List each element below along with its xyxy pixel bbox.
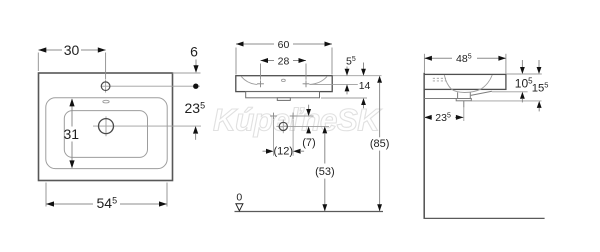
drain circle [99, 119, 114, 134]
dim 30 arrows [38, 47, 46, 52]
svg-text:(12): (12) [274, 145, 294, 157]
svg-text:0: 0 [236, 192, 242, 204]
wall line [423, 73, 425, 219]
top edge extension line right [173, 72, 201, 74]
trap tab front [277, 98, 290, 101]
outlet stub flange [456, 99, 471, 101]
overflow slot plan [103, 100, 109, 103]
faucet cross front left [260, 80, 262, 87]
faucet axis extension line right [111, 85, 201, 87]
dim 60 extension lines [235, 48, 237, 75]
dim 10.5 arrows [521, 60, 523, 67]
drain detail circle [279, 122, 287, 130]
slab underside extension line right [492, 91, 528, 93]
outlet bottom extension line right [472, 100, 542, 102]
dim 6 leader and arrow [195, 60, 197, 67]
svg-text:KúpeľneSK: KúpeľneSK [213, 102, 382, 138]
svg-text:6: 6 [190, 44, 198, 60]
underside slant line [471, 91, 492, 95]
dim 23.5 side arrows [424, 115, 432, 120]
mounting axis extension right [297, 115, 314, 117]
svg-text:14: 14 [359, 80, 371, 92]
dim 31 line [71, 101, 73, 127]
dim 48.5 extension lines [423, 54, 425, 73]
svg-text:(53): (53) [315, 166, 335, 178]
washbasin outer rect plan [39, 73, 173, 181]
datum triangle [236, 204, 243, 211]
basin rim rounded rect [46, 98, 167, 169]
faucet cross front right [305, 80, 307, 87]
svg-text:(85): (85) [370, 138, 390, 150]
datum line 0 [235, 211, 384, 213]
dim 28 extension lines [260, 64, 262, 80]
dim 54.5 arrows [46, 201, 54, 206]
svg-text:28: 28 [278, 55, 290, 67]
drain axis extension right front [290, 125, 329, 127]
drain pipe extension down [463, 107, 465, 121]
mounting cross left [273, 113, 275, 120]
basin inner rim curve front [241, 77, 257, 85]
drain crosshair [93, 125, 201, 127]
dim 60 arrows [236, 42, 244, 47]
washbasin body front [236, 76, 332, 92]
dim 48.5 line [424, 57, 452, 59]
plinth front [246, 92, 320, 98]
dim 28 arrows [261, 58, 269, 63]
dim 54.5 line [46, 203, 93, 205]
dim 5.5 arrows [346, 67, 348, 70]
slab side [424, 74, 506, 89]
bowl underside to wall line [424, 98, 457, 100]
drain detail crosshair [276, 125, 290, 127]
svg-text:(7): (7) [302, 137, 315, 149]
dim 15.5 arrows [538, 60, 540, 67]
dim 28 line [261, 60, 275, 62]
plinth bottom extension line right [321, 97, 367, 99]
slab top extension line right [506, 73, 541, 75]
faucet hole crosshair [105, 80, 107, 93]
dim 30 extension lines [37, 53, 39, 72]
dim 12 extension lines [273, 120, 275, 156]
dim 12 lines and arrows [263, 150, 267, 152]
dim 23.5 side line [424, 116, 432, 118]
faucet axis extension line right front [309, 83, 357, 85]
dim 54.5 extension lines [45, 183, 47, 207]
svg-text:30: 30 [64, 42, 80, 58]
dim 60 line [236, 43, 274, 45]
svg-text:31: 31 [64, 126, 80, 142]
faucet hole circle [101, 82, 110, 91]
dim 48.5 arrows [424, 56, 432, 61]
dim 6 dot on faucet axis [193, 84, 198, 89]
svg-text:60: 60 [278, 39, 290, 51]
bowl curve side [444, 75, 492, 93]
dim 85 line [377, 76, 382, 83]
dim 7 arrows [308, 105, 310, 110]
mounting cross right [292, 113, 294, 120]
dim 14 arrows [363, 63, 365, 70]
overflow front [282, 79, 286, 81]
dim 30 line [39, 49, 63, 51]
ledge hatch [433, 77, 446, 79]
drain pipe [463, 101, 465, 108]
dim 31 arrows [69, 98, 74, 106]
dim 53 line [322, 126, 327, 133]
outlet stub walls [457, 92, 459, 98]
dim 23.5 arrow up plan [193, 126, 198, 134]
rim top extension line right [333, 75, 382, 77]
basin bowl rounded rect [64, 111, 147, 158]
floor line [424, 217, 545, 219]
